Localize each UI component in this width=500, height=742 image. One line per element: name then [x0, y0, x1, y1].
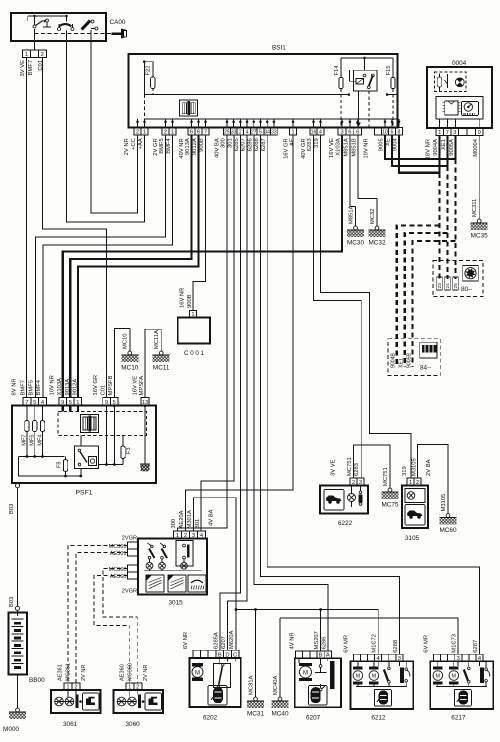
engine-compartment lamp 6222 box	[320, 486, 368, 514]
ground MC75	[381, 445, 398, 509]
svg-text:4: 4	[319, 129, 322, 135]
0004 internal module box	[436, 96, 483, 119]
svg-text:MC31A: MC31A	[248, 676, 254, 695]
svg-text:8: 8	[398, 129, 401, 135]
svg-text:F22: F22	[146, 66, 152, 76]
wire BMF5 (BSI to PSF1 pin5)	[35, 136, 165, 398]
ground MC11	[153, 329, 170, 371]
svg-text:6283: 6283	[307, 138, 313, 151]
PSF1 pin cells 9 5	[103, 398, 118, 406]
svg-text:BMF7: BMF7	[28, 60, 34, 75]
svg-text:4V NR: 4V NR	[290, 632, 296, 649]
ground MC10	[121, 329, 138, 372]
wire 9012A thick (BSI pin6 to PSF1 pin1)	[78, 136, 199, 398]
label F14	[334, 65, 340, 76]
relay in BSI	[350, 58, 377, 91]
svg-text:M620A: M620A	[229, 630, 235, 649]
svg-text:6287: 6287	[261, 138, 267, 151]
svg-text:6: 6	[356, 129, 359, 135]
dashed wire 9005A (0004 pin3 down to 80-)	[454, 159, 456, 279]
label MC360	[108, 567, 126, 573]
label AE361	[110, 551, 127, 557]
dashed wire XE1 (0004 pin7 down to 80-)	[446, 166, 448, 279]
6212 switch	[384, 661, 390, 686]
3015 headlight icon high	[168, 575, 186, 592]
PSF1 wire MPSFB internal	[113, 404, 116, 464]
ground M000	[3, 708, 26, 733]
svg-text:1: 1	[171, 129, 174, 135]
ignition switch CA00 box	[11, 13, 106, 41]
svg-text:4V BA: 4V BA	[209, 509, 215, 526]
svg-text:F8: F8	[57, 462, 63, 469]
svg-text:10: 10	[382, 129, 388, 135]
svg-text:MC751: MC751	[347, 457, 353, 476]
svg-text:PSF1: PSF1	[76, 490, 93, 497]
label 16V NR 900B	[180, 288, 194, 308]
6212 motor symbols	[353, 661, 379, 686]
svg-text:6288: 6288	[393, 640, 399, 653]
svg-text:M3105: M3105	[412, 458, 418, 476]
svg-text:6286: 6286	[248, 138, 254, 151]
label 2VGR upper	[122, 536, 137, 542]
3015 switch 1	[146, 543, 154, 571]
svg-text:34: 34	[264, 129, 270, 135]
label MF5	[30, 435, 36, 446]
6207 motor symbol	[299, 658, 328, 681]
BSI pin cells group C (9013A 9012A 900B)	[188, 128, 209, 136]
svg-text:6202: 6202	[203, 715, 218, 722]
label B03 upper	[9, 504, 15, 514]
6217 motor symbols	[433, 661, 459, 686]
wire AE / AE20A (BSI to 3015 pin2)	[186, 136, 294, 531]
svg-text:M: M	[356, 674, 361, 680]
svg-text:3V VE: 3V VE	[20, 60, 26, 77]
3061 lighter icon	[83, 693, 100, 710]
svg-text:33: 33	[271, 129, 277, 135]
svg-text:M: M	[436, 674, 441, 680]
wire BMF7 (C01 pin1 to PSF1 pin7)	[26, 58, 28, 398]
svg-text:BMF7: BMF7	[21, 380, 27, 395]
svg-text:BMF5: BMF5	[28, 380, 34, 395]
label 6222	[338, 520, 353, 527]
battery BB00	[9, 610, 28, 674]
wire 6207 (BSI to 6202 pin D)	[227, 136, 247, 651]
3060 pin labels	[119, 663, 149, 681]
label 80-	[461, 286, 472, 293]
connector 80- dashed box	[433, 261, 483, 297]
wire 6287 (BSI to 6217 pin 4)	[267, 136, 479, 655]
svg-text:2V GR: 2V GR	[153, 138, 159, 155]
PSF1 pin cells 7 5 4	[23, 398, 46, 406]
combination unit 0004 box	[427, 67, 492, 128]
wire 6283 (BSI to 6222 pin3)	[314, 136, 362, 478]
label CA00	[110, 19, 126, 26]
6212 car icon	[374, 690, 391, 707]
svg-text:6285A: 6285A	[214, 632, 220, 649]
rear lamp cluster 6212 box	[350, 661, 413, 709]
svg-text:10V NR: 10V NR	[364, 138, 370, 158]
svg-text:2VGR: 2VGR	[122, 536, 137, 542]
0004 pin cells (1 7 3)	[436, 128, 459, 136]
connector icon in 84-	[420, 342, 437, 358]
svg-text:F3: F3	[126, 448, 132, 455]
PSF1 thick pin stubs	[63, 406, 78, 412]
svg-text:F14: F14	[334, 65, 340, 76]
svg-text:C01: C01	[38, 60, 44, 71]
svg-text:301: 301	[195, 519, 201, 529]
label BSI1	[272, 45, 286, 52]
80- pin cells	[437, 277, 460, 290]
84- wire labels	[391, 352, 413, 368]
PSF1 pin cell 13	[141, 398, 149, 406]
svg-text:M0004: M0004	[473, 138, 479, 157]
label 4V BA	[209, 509, 215, 526]
svg-text:6286: 6286	[321, 637, 327, 650]
fuse F15 in BSI	[391, 58, 395, 128]
svg-text:6222: 6222	[338, 520, 353, 527]
svg-text:7: 7	[446, 130, 449, 136]
6207 pin cells	[295, 651, 331, 659]
wire MPSFA to ground MC11	[145, 329, 161, 397]
wire M3105 (3105 pin2 to ground MC60)	[418, 445, 449, 513]
svg-text:3061: 3061	[63, 721, 78, 728]
svg-text:40V GR: 40V GR	[301, 138, 307, 159]
label C001	[184, 350, 205, 357]
svg-text:MC32: MC32	[368, 240, 385, 247]
svg-text:6V MR: 6V MR	[344, 635, 350, 653]
mass bus M620A/MC31A/MS207/M1C72	[236, 610, 378, 655]
svg-text:M851A: M851A	[344, 138, 350, 157]
label 6217	[451, 715, 466, 722]
svg-text:6: 6	[190, 129, 193, 135]
ground MC32	[368, 199, 385, 247]
svg-text:2V NR: 2V NR	[81, 665, 87, 681]
svg-text:3015: 3015	[169, 600, 184, 607]
3015 pin cells 1-4	[174, 531, 206, 539]
BSI pin cells group D (lighting outputs)	[224, 128, 278, 136]
label MC361	[108, 544, 126, 550]
svg-text:16V VE: 16V VE	[133, 376, 139, 396]
svg-text:XE1: XE1	[441, 139, 447, 150]
dashed branch to 84- third	[413, 241, 456, 367]
svg-text:6285: 6285	[234, 138, 240, 151]
CA00 mechanical linkage (dashed)	[34, 33, 111, 35]
6217 pin cells	[433, 654, 483, 662]
rear wiper motor 6207 box	[295, 658, 341, 707]
label 3015	[169, 600, 184, 607]
fuse F14 in BSI	[339, 58, 343, 128]
3061 pin labels	[58, 663, 88, 681]
PSF1 bottom rail	[19, 457, 83, 478]
3015 left pin pair upper	[128, 542, 139, 556]
label 6212	[371, 715, 386, 722]
svg-text:1: 1	[143, 129, 146, 135]
svg-text:+AA: +AA	[138, 138, 144, 149]
lighting switch 3015 box	[138, 539, 207, 595]
svg-text:BB00: BB00	[29, 677, 45, 684]
3060 lamp symbols	[117, 690, 144, 708]
dashed wire AE361 (3015 to 3061 pin2)	[76, 553, 128, 684]
svg-text:84--: 84--	[420, 365, 431, 372]
svg-text:6283: 6283	[354, 463, 360, 476]
6217 car icon	[454, 690, 471, 707]
svg-text:6: 6	[348, 129, 351, 135]
6202 motor symbol	[192, 658, 235, 681]
svg-text:3060: 3060	[126, 721, 141, 728]
svg-text:MF4: MF4	[37, 435, 43, 446]
BSI internal supply rail	[341, 57, 393, 60]
svg-text:40V BA: 40V BA	[215, 138, 221, 158]
mass bus 2 MC40A/M1C73	[280, 618, 458, 654]
wire X103A thick (BSI pin3 to PSF1 pin9)	[63, 136, 342, 398]
0004 gauge icon	[462, 102, 479, 116]
svg-text:MC75: MC75	[381, 502, 398, 509]
PSF1 relay box	[75, 436, 99, 477]
svg-text:9005B: 9005B	[407, 352, 413, 368]
svg-text:MC10: MC10	[121, 365, 138, 372]
3015 left pin pair lower	[128, 565, 139, 579]
6217 switch	[464, 661, 470, 686]
CA00 switch contact 2	[58, 16, 75, 31]
6207 car icon	[309, 686, 328, 706]
svg-text:9: 9	[478, 130, 481, 136]
svg-text:10V NR: 10V NR	[50, 375, 56, 395]
svg-text:M: M	[452, 674, 457, 680]
svg-text:MC11: MC11	[153, 365, 170, 372]
wire CA00 switch1 to connector	[33, 29, 35, 50]
svg-text:MF7: MF7	[22, 435, 28, 446]
svg-text:23: 23	[437, 283, 443, 289]
label 0004	[452, 60, 467, 67]
svg-text:M: M	[372, 674, 377, 680]
svg-text:2V NR: 2V NR	[124, 138, 130, 155]
6217 pin labels	[424, 634, 480, 653]
svg-text:900B: 900B	[187, 294, 193, 308]
label F22	[146, 66, 152, 76]
svg-text:6212: 6212	[371, 715, 386, 722]
0004 electronics IC icon	[443, 101, 461, 115]
mass bus junction dots	[235, 608, 322, 611]
glovebox lamp 3105 box	[402, 486, 428, 529]
label 6207	[306, 715, 321, 722]
svg-text:M1C72: M1C72	[372, 634, 378, 653]
svg-text:B03: B03	[9, 504, 15, 514]
label F15	[386, 66, 392, 76]
svg-text:1: 1	[291, 129, 294, 135]
PSF1 connector grid icon	[81, 415, 99, 433]
wire 9004 thick (BSI pin8 to 0004 pin1)	[399, 136, 440, 173]
connector bobble B03 lower	[15, 606, 19, 610]
BSI pin cells group F (6283 319)	[310, 128, 324, 136]
svg-text:AE360: AE360	[119, 664, 125, 681]
C001 pin cell	[190, 311, 197, 318]
wire 319 (BSI to 3105 pin1)	[321, 136, 412, 478]
svg-text:33: 33	[231, 129, 237, 135]
front wiper motor unit 6202 box	[190, 658, 241, 707]
6217 internal pin stubs	[458, 661, 479, 666]
fuse F8	[63, 457, 67, 477]
wire +AA (CA00 switch2 to BSI pin1)	[67, 31, 145, 223]
wire MC751 (6222 pin2 to ground MC75)	[354, 445, 391, 488]
svg-text:MC11A: MC11A	[154, 330, 160, 349]
svg-text:16V GR: 16V GR	[93, 375, 99, 396]
label MF4	[37, 435, 43, 446]
svg-text:M1C73: M1C73	[452, 634, 458, 653]
wire M851B (BSI pin6 to ground MC32)	[358, 136, 377, 199]
6212 bottom rail	[356, 686, 407, 688]
svg-text:6207: 6207	[241, 138, 247, 151]
ground MC40	[271, 618, 288, 718]
ground MC35	[471, 136, 488, 240]
dashed wire AE360 (3015 to 3060 pin1)	[94, 576, 130, 684]
svg-text:MC40: MC40	[271, 711, 288, 718]
wire battery to M000	[17, 675, 19, 709]
label PSF1	[76, 490, 93, 497]
6212 pin labels	[344, 634, 400, 653]
svg-text:BMF5: BMF5	[159, 138, 165, 153]
PSF1 internal ground	[140, 404, 150, 471]
svg-text:AE20A: AE20A	[179, 510, 185, 528]
rear lamp cluster 6217 box	[430, 661, 493, 709]
svg-text:9005: 9005	[379, 138, 385, 151]
svg-text:C 0 0 1: C 0 0 1	[184, 350, 205, 357]
fuse F3	[121, 436, 125, 465]
svg-text:2: 2	[239, 129, 242, 135]
6212 internal pin stubs	[378, 661, 399, 666]
6217 contact symbol	[480, 661, 490, 686]
6222 pin labels	[331, 457, 361, 476]
svg-text:MF5: MF5	[30, 435, 36, 446]
svg-text:2: 2	[41, 52, 44, 58]
fuse MF4	[40, 406, 44, 457]
BSI pin cells group A (+CC +AA)	[134, 128, 148, 136]
wire 9013A thick (BSI pin6 to PSF1 pin5)	[70, 136, 191, 398]
svg-text:C01: C01	[100, 385, 106, 396]
diagnostic socket C001 box	[178, 318, 210, 344]
svg-text:2VGR: 2VGR	[122, 589, 137, 595]
PSF1 inner dashed connector box	[58, 412, 147, 436]
6212 contact symbol	[400, 661, 410, 686]
CA00 switch contact 1	[33, 16, 51, 28]
key symbol of CA00	[112, 29, 128, 39]
6212 pin cells	[353, 654, 402, 662]
svg-text:MC360: MC360	[108, 567, 126, 573]
svg-text:8V NR: 8V NR	[12, 378, 18, 395]
3015 pin labels	[171, 510, 201, 529]
svg-text:27: 27	[251, 129, 257, 135]
wire BMF4 (BSI to PSF1 pin4)	[43, 136, 173, 398]
wire MPSFB to ground MC10	[114, 329, 130, 398]
3060 pin cells	[126, 683, 142, 690]
svg-text:6288: 6288	[254, 138, 260, 151]
svg-text:319: 319	[314, 138, 320, 148]
svg-text:MC311: MC311	[472, 199, 478, 217]
svg-text:M000: M000	[3, 726, 19, 733]
svg-text:F15: F15	[386, 66, 392, 76]
svg-text:6V MR: 6V MR	[424, 635, 430, 653]
BSI pin cell group E (AE)	[290, 128, 297, 136]
label 2VGR lower	[122, 589, 137, 595]
svg-text:80--: 80--	[461, 286, 472, 293]
svg-text:MC60: MC60	[439, 527, 456, 534]
0004 pin cell (9)	[476, 128, 484, 136]
CA00 internal top rail	[28, 15, 68, 21]
svg-text:M: M	[195, 670, 200, 676]
svg-text:BMF4: BMF4	[166, 138, 172, 154]
svg-text:9013A: 9013A	[185, 138, 191, 155]
svg-text:319: 319	[402, 466, 408, 476]
svg-text:M301A: M301A	[187, 510, 193, 529]
svg-text:CA00: CA00	[110, 19, 126, 26]
dashed branch to 84- second	[405, 233, 448, 367]
svg-text:MPSFB: MPSFB	[108, 375, 114, 395]
3015 internal rail	[144, 570, 202, 572]
svg-text:3: 3	[453, 130, 456, 136]
label AE360	[110, 574, 127, 580]
svg-text:M3105: M3105	[441, 494, 447, 512]
wire M851A (BSI pin6 to ground MC30)	[350, 136, 356, 207]
svg-text:6217: 6217	[451, 715, 466, 722]
svg-text:XE: XE	[386, 138, 392, 146]
svg-text:MC35: MC35	[471, 233, 488, 240]
svg-text:25: 25	[224, 129, 230, 135]
relay output wire with junction arrow	[356, 91, 361, 127]
svg-text:6V NR: 6V NR	[183, 632, 189, 649]
svg-text:2V BA: 2V BA	[426, 459, 432, 476]
svg-text:3V VE: 3V VE	[331, 459, 337, 476]
svg-text:M: M	[303, 670, 308, 676]
wire 9005 thick (BSI pin10 to 0004 pin3)	[385, 136, 456, 159]
0004 internal dashed module	[435, 72, 466, 91]
svg-text:16V NR: 16V NR	[180, 288, 186, 308]
label 3061	[63, 721, 78, 728]
label B03 lower	[9, 597, 15, 607]
fuse MF5	[33, 406, 37, 457]
dashed branch to 84- first	[397, 225, 440, 367]
svg-text:MS207: MS207	[314, 631, 320, 649]
3015 fog light icon	[188, 575, 206, 592]
6207 heater contact	[315, 661, 334, 691]
ground MC31	[247, 610, 264, 718]
svg-text:AE361: AE361	[58, 664, 64, 681]
PSF1 wire C01 internal	[99, 406, 124, 466]
svg-text:0004: 0004	[452, 60, 467, 67]
svg-text:MC361: MC361	[108, 544, 126, 550]
BSI pin cells group B (BMF5 BMF4)	[162, 128, 176, 136]
BSI pin wire labels	[124, 138, 399, 159]
svg-text:6287: 6287	[473, 640, 479, 653]
0004 pin cells filler	[459, 128, 476, 136]
svg-text:900B: 900B	[199, 138, 205, 152]
wire 6286 (BSI to 6207 pin A)	[254, 136, 328, 651]
wire M301A (3015 pin3 to mass bus and 6202 pin C)	[194, 498, 237, 651]
svg-text:MC10: MC10	[123, 334, 129, 349]
3061 pin cells	[64, 683, 80, 690]
svg-text:MC31: MC31	[247, 711, 264, 718]
PSF1 pin cells 9 5 1	[59, 398, 82, 406]
0004 pin labels	[426, 138, 480, 159]
ground MC60	[439, 445, 456, 535]
6222 pin cells	[350, 478, 364, 486]
svg-text:9004B: 9004B	[391, 352, 397, 368]
svg-text:300: 300	[221, 138, 227, 148]
3060 lighter icon	[145, 693, 162, 710]
svg-text:MC360: MC360	[127, 663, 133, 681]
svg-text:6207: 6207	[221, 636, 227, 649]
6202 pin cells	[193, 650, 239, 658]
wire 900B (BSI pin7 to C001)	[193, 136, 206, 311]
wire C01 (C01 pin2 to PSF1 pin9)	[42, 58, 106, 398]
